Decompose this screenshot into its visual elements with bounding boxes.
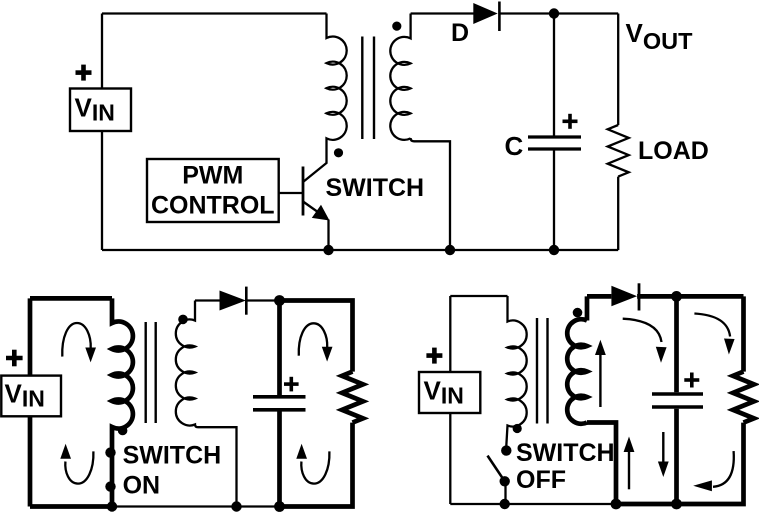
current arrow BL primary top [62, 323, 90, 357]
diode D [473, 3, 497, 24]
source VIN box (top) [70, 89, 131, 132]
polarity + of VIN BL [6, 350, 23, 367]
wire capacitor branch BL (bold) [277, 301, 282, 396]
transformer T1 core [362, 37, 374, 140]
junction dot rail BL (secondary return) [231, 501, 241, 511]
svg-text:SWITCH: SWITCH [326, 174, 425, 202]
transformer primary winding BL (bold) [112, 298, 133, 506]
switch contact dot lower BL [105, 481, 115, 491]
junction dot secondary-return-rail [445, 245, 455, 255]
svg-text:OFF: OFF [516, 466, 566, 494]
junction dot top BR [671, 291, 682, 302]
junction dot emitter-rail [323, 245, 333, 255]
switch contact dot upper BR [501, 445, 511, 455]
diode BL cathode bar [245, 287, 248, 315]
transformer secondary winding BR (bold) [567, 296, 587, 423]
wire left rail BR [449, 296, 451, 504]
current arrow BR diode-to-cap curved [623, 319, 662, 342]
diode BR [611, 286, 637, 306]
svg-text:ON: ON [123, 472, 161, 500]
transistor Q1 (SWITCH) [303, 167, 329, 251]
diode BL [220, 291, 246, 311]
current arrow BL output bottom [301, 451, 329, 483]
transformer core BL [146, 322, 156, 423]
svg-text:C: C [505, 131, 524, 161]
wire diode to junction BL [246, 299, 279, 301]
wire diode cathode to Vout corner [499, 12, 618, 14]
source VIN box BL [1, 376, 61, 417]
diode D cathode bar [498, 2, 501, 32]
secondary return BR (bold) [587, 423, 616, 505]
phasing dot secondary BL [178, 315, 188, 325]
switch contact dot lower BR [500, 476, 510, 486]
current arrow BR cap down [662, 432, 664, 462]
junction dot cap-rail [549, 245, 559, 255]
transistor Q1 emitter arrowhead [312, 205, 330, 221]
wire bottom rail left BL (bold) [30, 504, 112, 509]
wire bottom rail mid BL (thin) [112, 505, 280, 507]
wire capacitor branch lower [553, 151, 555, 251]
wire secondary top (top circuit) [411, 12, 474, 14]
phasing dot primary BR [513, 424, 522, 433]
polarity + of VIN (top) [76, 65, 92, 81]
current arrow BL primary bottom [65, 451, 93, 483]
current arrow BR return up [628, 451, 630, 489]
junction dot bottom BR (cap) [671, 499, 682, 510]
polarity + of capacitor BR [684, 373, 699, 388]
junction dot rail BR (switch) [500, 499, 510, 509]
wire base [279, 192, 303, 194]
polarity + of C (top) [563, 114, 578, 129]
phasing dot secondary (top) [392, 22, 401, 31]
current arrow BL output top [299, 323, 328, 355]
capacitor plates BL [253, 397, 306, 410]
current arrow BR load-loop top curved [694, 314, 730, 337]
junction dot bottom BR (return) [611, 499, 622, 510]
junction dot bottom BL (cap) [274, 501, 285, 512]
PWM CONTROL box [147, 159, 279, 222]
junction dot rail BL (coil) [107, 501, 117, 511]
transformer secondary winding BL [176, 301, 237, 507]
wire secondary top to diode BL [195, 299, 220, 301]
svg-text:LOAD: LOAD [638, 137, 709, 165]
svg-text:PWM: PWM [182, 162, 243, 190]
source VIN box BR [419, 372, 480, 413]
transformer T1 primary winding (top) [303, 14, 347, 183]
wire right rail upper [617, 14, 619, 126]
phasing dot secondary BR [573, 308, 583, 318]
capacitor plates BR [652, 394, 703, 407]
capacitor branch BR (bold) [674, 296, 679, 392]
phasing dot primary (top) [334, 148, 343, 157]
wire left rail (top circuit) [101, 14, 103, 251]
wire right rail lower [617, 177, 619, 250]
wire bottom rail BR (thin) [450, 503, 616, 505]
switch lever BR (open) [488, 456, 505, 482]
output loop BL (bold): top, right rail, resistor, bottom [280, 301, 364, 507]
junction dot diode-cap (top) [549, 8, 559, 18]
transformer core BR [537, 318, 548, 424]
resistor LOAD [608, 125, 629, 177]
wire secondary return [411, 138, 450, 250]
polarity + of VIN BR [426, 348, 442, 364]
bold right loop BR: right rail + resistor + bottom rail [616, 296, 754, 504]
current arrow BR secondary up [599, 354, 601, 407]
wire bottom rail (top circuit) [102, 249, 618, 251]
wire left rail BL (bold) [28, 298, 33, 506]
wire top rail BL (bold) [30, 296, 112, 301]
wire top rail BR [450, 295, 507, 297]
polarity + of capacitor BL [284, 377, 299, 392]
switch contact dot upper BL [105, 447, 115, 457]
wire switch lower to rail BR [504, 481, 506, 504]
wire top rail left (top circuit) [102, 12, 327, 14]
wire capacitor branch upper [553, 14, 555, 136]
junction dot top BL [274, 295, 285, 306]
svg-text:SWITCH: SWITCH [123, 442, 222, 470]
svg-text:SWITCH: SWITCH [516, 439, 615, 467]
phasing dot primary BL [118, 426, 128, 436]
wire diode to top right corner BR (bold) [637, 294, 743, 299]
transformer primary winding BR [506, 296, 526, 446]
diode BR cathode bar [638, 283, 641, 310]
svg-text:D: D [451, 19, 469, 47]
current arrow BR load-loop bottom curved [713, 451, 734, 487]
wire secondary top to diode BR (bold) [587, 294, 611, 299]
svg-text:CONTROL: CONTROL [151, 191, 275, 219]
capacitor C plates (top) [528, 137, 581, 149]
transformer T1 secondary winding (top) [390, 14, 410, 140]
